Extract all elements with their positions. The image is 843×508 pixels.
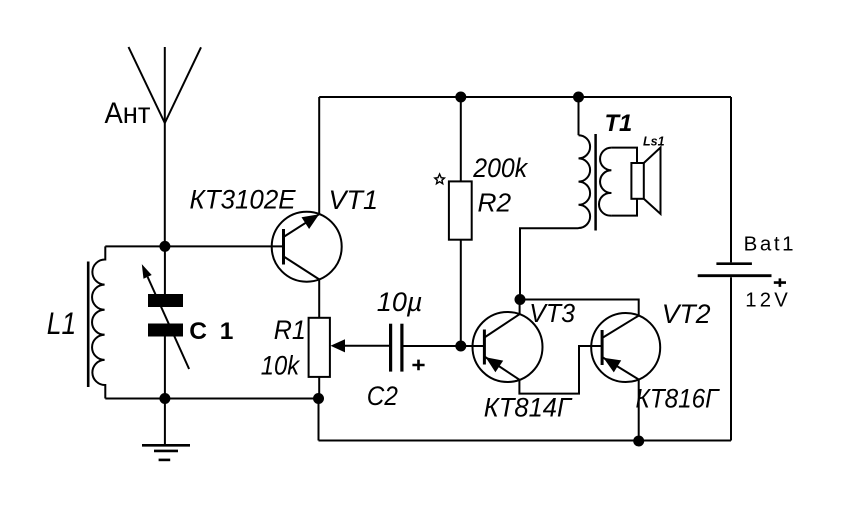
wire C1 top lead bbox=[164, 246, 166, 294]
wire VT2 emitter to bottom rail bbox=[638, 380, 640, 442]
battery Bat1 plate long bbox=[698, 274, 772, 277]
battery Bat1 plate short bbox=[716, 262, 752, 265]
wire VT3 emitter to VT2 base bbox=[519, 346, 602, 394]
plus sign C2 bbox=[412, 360, 424, 371]
junction node bottom left bbox=[159, 393, 170, 404]
junction node VT2 emitter/rail bbox=[633, 436, 644, 447]
wire R1 bottom bbox=[318, 377, 320, 399]
wire T1 secondary bottom to speaker bbox=[611, 199, 637, 216]
transformer T1 secondary winding bbox=[599, 148, 611, 216]
antenna V left bbox=[129, 47, 165, 123]
plus sign Bat1 bbox=[774, 278, 786, 287]
svg-text:T1: T1 bbox=[605, 109, 633, 136]
svg-text:КТ816Г: КТ816Г bbox=[636, 384, 721, 413]
resistor R1 body bbox=[309, 318, 330, 377]
transistor VT3 emitter arrow bbox=[486, 357, 504, 372]
capacitor C2 right plate bbox=[400, 324, 403, 372]
svg-text:VT2: VT2 bbox=[662, 299, 711, 329]
junction node rail/T1 bbox=[573, 92, 584, 103]
svg-text:200k: 200k bbox=[472, 154, 529, 183]
junction node antenna/L1/C1 bbox=[159, 241, 170, 252]
junction node R1 bottom bbox=[313, 393, 324, 404]
transistor VT2 emitter diagonal bbox=[602, 357, 639, 380]
transistor VT1 emitter diagonal bbox=[284, 214, 320, 237]
junction node rail/R2 bbox=[455, 92, 466, 103]
wire bottom-left horizontal bbox=[105, 398, 318, 400]
capacitor C1 arrow line bbox=[148, 277, 190, 369]
transformer T1 primary winding bbox=[579, 135, 591, 228]
asterisk marker near R2 bbox=[435, 174, 445, 184]
svg-text:VT3: VT3 bbox=[529, 300, 575, 329]
svg-text:Bat1: Bat1 bbox=[744, 232, 797, 255]
capacitor C1 plate top bbox=[148, 294, 183, 307]
wire node to VT2 collector bbox=[520, 300, 639, 316]
svg-text:Ls1: Ls1 bbox=[643, 135, 665, 149]
transistor VT3 base bar bbox=[483, 330, 486, 365]
transistor VT3 circle bbox=[473, 312, 543, 382]
svg-text:Ант: Ант bbox=[105, 97, 151, 130]
svg-text:R2: R2 bbox=[478, 190, 512, 218]
svg-text:10k: 10k bbox=[261, 351, 300, 381]
wire top-left horizontal L1/C1 to VT1 base bbox=[105, 245, 283, 247]
potentiometer R1 wiper arrow bbox=[331, 339, 346, 352]
speaker Ls1 body bbox=[631, 163, 643, 199]
svg-text:C1: C1 bbox=[189, 318, 246, 345]
ground bbox=[142, 445, 190, 460]
transistor VT3 emitter diagonal bbox=[484, 357, 519, 380]
antenna mast bbox=[164, 47, 166, 246]
svg-text:R1: R1 bbox=[274, 314, 306, 345]
transformer T1 primary lead bbox=[578, 97, 580, 135]
transistor VT3 collector diagonal bbox=[484, 314, 519, 337]
svg-text:10µ: 10µ bbox=[377, 287, 423, 317]
bottom rail bbox=[319, 440, 732, 442]
transistor VT2 emitter arrow bbox=[603, 358, 621, 373]
transistor VT1 circle bbox=[272, 212, 342, 282]
wire C1 bottom lead bbox=[164, 337, 166, 399]
transistor VT1 base bar bbox=[282, 229, 285, 265]
transistor VT2 collector diagonal bbox=[602, 316, 639, 338]
inductor L1 winding bbox=[92, 246, 105, 398]
top rail bbox=[319, 96, 731, 98]
wire ground drop bbox=[164, 399, 166, 446]
wire T1 secondary top to speaker bbox=[611, 148, 637, 163]
transistor VT1 emitter arrow bbox=[302, 214, 320, 229]
capacitor C1 arrowhead bbox=[142, 264, 152, 279]
junction node VT3 collector/T1 bbox=[515, 294, 526, 305]
capacitor C2 left plate bbox=[389, 324, 392, 372]
wire VT1 top to rail bbox=[318, 97, 320, 214]
right rail battery to bottom bbox=[730, 277, 732, 440]
wire node to T1 primary bottom bbox=[520, 228, 579, 299]
svg-text:VT1: VT1 bbox=[329, 185, 379, 215]
antenna V right bbox=[165, 47, 201, 123]
capacitor C1 plate bottom bbox=[148, 324, 183, 337]
wire R1 wiper to C2 bbox=[343, 345, 389, 347]
wire VT1 collector to R1 bbox=[318, 279, 320, 317]
wire R2 bottom bbox=[460, 240, 462, 346]
wire R1 bottom to rail bbox=[318, 399, 320, 441]
svg-text:КТ3102Е: КТ3102Е bbox=[190, 184, 296, 215]
svg-text:12V: 12V bbox=[745, 290, 791, 312]
transistor VT2 base bar bbox=[601, 330, 604, 365]
transistor VT2 circle bbox=[591, 313, 660, 382]
transistor VT1 collector diagonal bbox=[284, 256, 320, 279]
svg-text:C2: C2 bbox=[367, 382, 398, 411]
svg-text:КТ814Г: КТ814Г bbox=[484, 392, 573, 423]
wire C2 to VT3 base bbox=[404, 345, 485, 347]
right rail top to battery bbox=[730, 97, 732, 262]
resistor R2 body bbox=[449, 181, 472, 239]
svg-text:L1: L1 bbox=[47, 307, 76, 342]
transformer T1 core bbox=[594, 134, 597, 231]
inductor L1 core bar bbox=[87, 262, 90, 388]
speaker Ls1 horn bbox=[644, 148, 661, 214]
wire R2 top bbox=[460, 97, 462, 181]
junction node R2/C2/VT3 base bbox=[455, 341, 466, 352]
wire VT3 collector up to node bbox=[519, 300, 521, 315]
